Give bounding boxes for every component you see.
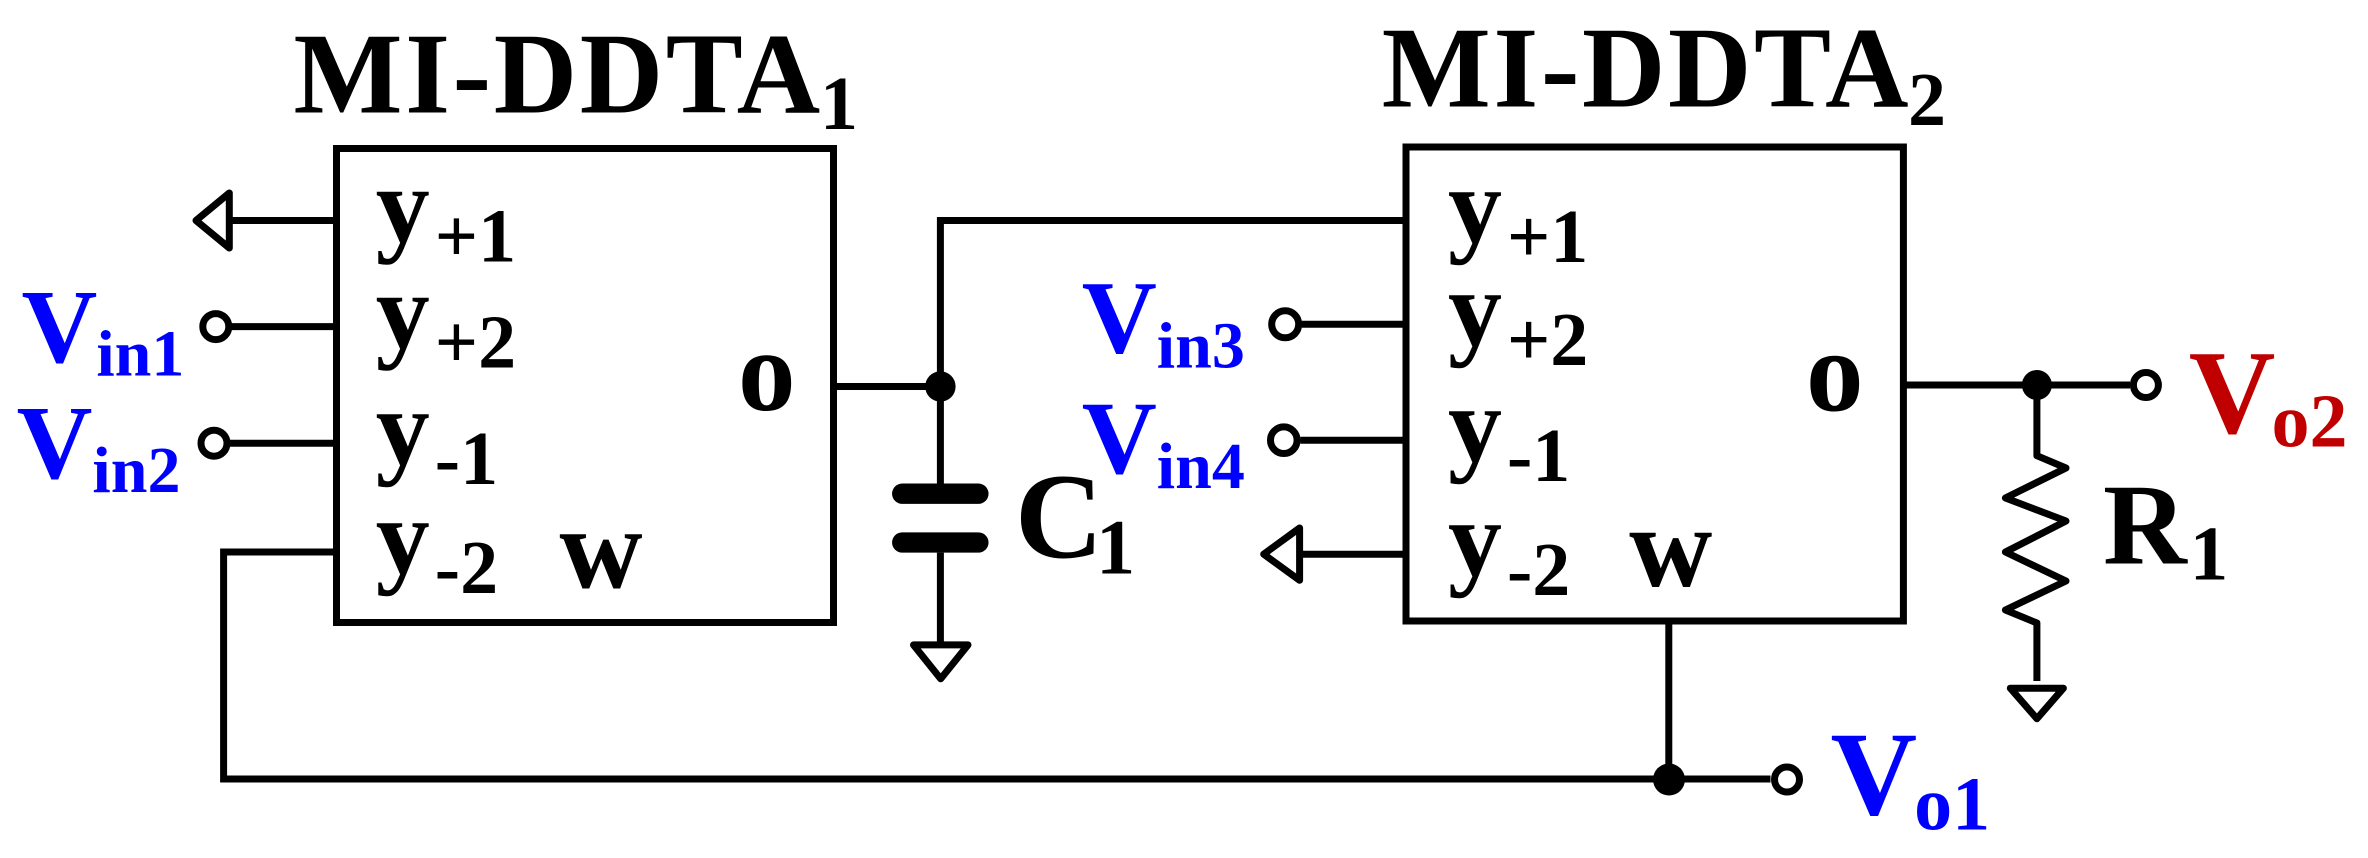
svg-text:o: o xyxy=(738,308,796,435)
wire U2 output o to Vo2 xyxy=(1903,382,2130,389)
wire U2 pin y-1 xyxy=(1301,437,1407,444)
arrowhead U1 y+1 (open, pointing left) xyxy=(196,193,229,248)
wire U2 pin y+2 xyxy=(1302,321,1406,328)
terminal Vo1 circle xyxy=(1775,767,1800,792)
ground under R1 (open arrow) xyxy=(2010,688,2063,719)
svg-text:w: w xyxy=(560,486,643,613)
wire U1 pin y-2 feedback loop + bottom wire to Vo1 xyxy=(224,552,1771,779)
terminal Vo2 circle xyxy=(2133,373,2158,398)
wire U2 w pin down xyxy=(1665,621,1672,779)
wire U1 pin y+2 xyxy=(232,323,337,330)
svg-text:w: w xyxy=(1629,484,1712,611)
junction node C dot xyxy=(1653,764,1685,796)
svg-text:MI-DDTA: MI-DDTA xyxy=(294,9,823,137)
wire node A down to C1 xyxy=(937,387,944,485)
svg-text:1: 1 xyxy=(820,62,858,146)
capacitor C1 bottom plate xyxy=(902,532,978,552)
wire C1 to ground xyxy=(937,553,944,644)
terminal Vin4 circle xyxy=(1271,427,1298,454)
junction node B dot xyxy=(2022,370,2052,400)
svg-text:2: 2 xyxy=(1908,58,1946,142)
wire node A up to U2 y+1 xyxy=(940,221,1406,387)
resistor R1 zigzag xyxy=(2005,385,2066,681)
arrowhead U2 y-2 (open, pointing left) xyxy=(1264,528,1300,580)
svg-text:MI-DDTA: MI-DDTA xyxy=(1382,4,1911,132)
wire U1 output o xyxy=(834,383,941,390)
svg-text:o: o xyxy=(1806,309,1864,436)
block U2 MI-DDTA2 xyxy=(1406,147,1903,621)
wire U1 pin y-1 xyxy=(230,440,337,447)
junction node A dot xyxy=(925,371,955,401)
wire U2 pin y-2 xyxy=(1300,551,1406,558)
terminal Vin3 circle xyxy=(1272,311,1299,338)
capacitor C1 top plate xyxy=(902,484,978,504)
block U1 MI-DDTA1 xyxy=(337,149,834,623)
ground под C1 (open arrow) xyxy=(914,645,969,679)
terminal Vin2 circle xyxy=(201,430,227,456)
wire U1 pin y+1 xyxy=(229,217,337,224)
terminal Vin1 circle xyxy=(203,314,229,340)
